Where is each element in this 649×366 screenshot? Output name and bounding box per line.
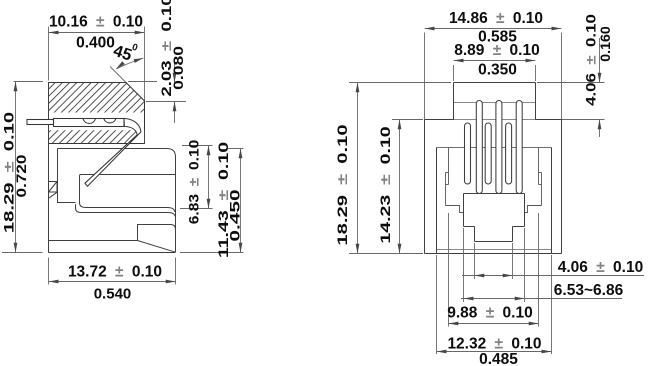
side slot details, right — [525, 148, 542, 213]
dimension 4.06 +/- 0.10 latch slot width — [462, 275, 644, 277]
svg-text:18.29 ± 0.10: 18.29 ± 0.10 — [334, 124, 350, 245]
socket cavity lower outline — [76, 204, 176, 216]
left outer wall — [48, 83, 50, 253]
dimension 11.43 +/- 0.10 (0.450) — [180, 149, 244, 253]
pin 1 — [465, 123, 471, 184]
svg-text:14.86 ± 0.10: 14.86 ± 0.10 — [449, 10, 543, 27]
pin 5 — [506, 123, 512, 184]
svg-text:12.32 ± 0.10: 12.32 ± 0.10 — [447, 336, 541, 353]
dimension 14.86 +/- 0.10 (0.585) overall width — [425, 29, 562, 120]
svg-text:0.080: 0.080 — [172, 46, 187, 90]
svg-text:4.06 ± 0.10: 4.06 ± 0.10 — [558, 259, 643, 276]
pin 3 — [485, 123, 491, 184]
socket cavity upper outline — [80, 175, 176, 213]
svg-text:13.72 ± 0.10: 13.72 ± 0.10 — [68, 264, 162, 281]
pin 6 — [516, 101, 522, 194]
contact pins — [465, 101, 523, 194]
svg-text:10.16 ± 0.10: 10.16 ± 0.10 — [49, 14, 143, 31]
inner recess: side walls — [436, 148, 438, 254]
svg-text:8.89 ± 0.10: 8.89 ± 0.10 — [454, 42, 539, 59]
body outline, left view — [49, 83, 176, 253]
inner-left wall and ledge — [58, 149, 76, 203]
grey internal lines of tower — [454, 103, 536, 120]
dimension 8.89 +/- 0.10 (0.350) tower width — [454, 61, 536, 82]
dimension 18.29 +/- 0.10 (0.720) overall height, left view — [2, 82, 43, 253]
side slot details, left — [446, 148, 464, 213]
pin 2 — [476, 101, 482, 194]
svg-text:0.720: 0.720 — [15, 155, 30, 198]
svg-text:9.88 ± 0.10: 9.88 ± 0.10 — [447, 305, 532, 322]
svg-text:0.400: 0.400 — [76, 35, 115, 52]
rear notch — [138, 225, 176, 241]
dimension 18.29 +/- 0.10 overall height, right view — [349, 83, 451, 254]
bottom diagonal — [138, 241, 176, 253]
bottom shelf — [49, 240, 138, 242]
svg-text:14.23 ± 0.10: 14.23 ± 0.10 — [378, 126, 393, 243]
inner recess: floor line — [437, 249, 552, 251]
dimension 2.03 +/- 0.10 (0.080) chamfer depth — [128, 58, 186, 123]
dimension 14.23 +/- 0.10 lower height — [392, 120, 423, 254]
body top edge and right wall — [58, 149, 176, 253]
svg-text:0.160: 0.160 — [597, 26, 613, 62]
svg-text:6.83 ± 0.10: 6.83 ± 0.10 — [187, 140, 202, 224]
dimension 6.53~6.86 opening width — [461, 298, 622, 300]
svg-text:0.350: 0.350 — [478, 62, 517, 79]
svg-text:0.485: 0.485 — [479, 351, 518, 366]
dimension 45 deg chamfer angle — [110, 58, 144, 83]
dimension 13.72 +/- 0.10 (0.540) bottom width — [49, 258, 176, 285]
outer body, right view — [425, 83, 562, 254]
bottom dimension extension lines — [437, 213, 552, 354]
contact terminal bar — [27, 119, 124, 127]
contact spring wire — [85, 118, 141, 186]
svg-text:0.540: 0.540 — [94, 286, 132, 303]
dimension 4.06 +/- 0.10 (0.160) top step height — [537, 38, 605, 137]
dimension 10.16 +/- 0.10 (0.400) top width — [49, 27, 145, 101]
dimension 12.32 +/- 0.10 (0.485) — [437, 351, 552, 353]
dimension 6.83 +/- 0.10 socket depth — [180, 146, 213, 209]
inner recess: top edge — [437, 147, 552, 149]
svg-text:6.53~6.86: 6.53~6.86 — [554, 282, 624, 299]
pin 4 — [496, 101, 502, 194]
hatched insulator block with 45 deg chamfer — [49, 83, 145, 144]
dimension 9.88 +/- 0.10 — [449, 323, 539, 325]
mouth opening and latch slot — [464, 194, 525, 242]
bottom edge — [49, 252, 176, 254]
svg-text:0.450: 0.450 — [227, 189, 242, 242]
section square on left wall — [49, 182, 58, 199]
